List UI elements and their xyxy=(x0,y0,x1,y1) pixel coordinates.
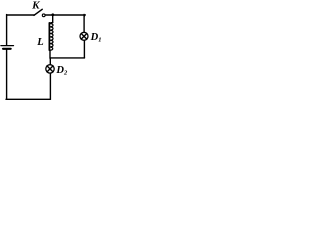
wire left side xyxy=(6,15,8,45)
svg-text:D2: D2 xyxy=(55,65,68,77)
wire top-right segment xyxy=(45,15,85,16)
wire middle horizontal xyxy=(50,57,84,59)
wire top-left segment xyxy=(7,14,35,16)
svg-text:K: K xyxy=(31,1,40,12)
battery E long plate xyxy=(1,45,14,47)
battery E short plate xyxy=(3,48,11,50)
wire left lower xyxy=(6,50,8,99)
switch K right contact xyxy=(42,14,45,17)
wire right lower xyxy=(83,41,85,58)
wire D2 branch lower xyxy=(49,74,51,100)
inductor L coil scallops xyxy=(50,23,53,51)
lamp D1 xyxy=(80,32,88,40)
lamp D2 xyxy=(46,65,54,73)
wire coil bottom to node B xyxy=(49,50,51,58)
node A junction dot xyxy=(51,13,54,16)
switch K blade xyxy=(34,9,42,15)
svg-text:L: L xyxy=(36,37,43,48)
svg-text:D1: D1 xyxy=(90,32,102,44)
inductor L core bar xyxy=(48,23,50,50)
wire stub node A to coil xyxy=(52,15,54,23)
wire right upper xyxy=(83,15,85,32)
wire bottom xyxy=(6,98,50,100)
wire D2 to node B xyxy=(49,58,51,64)
